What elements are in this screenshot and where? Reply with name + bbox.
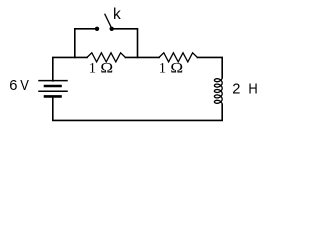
switch branch right leg wire <box>114 29 138 58</box>
svg-text:k: k <box>113 6 121 23</box>
resistor R1 (1 ohm) <box>87 53 125 62</box>
svg-text:1: 1 <box>89 61 96 77</box>
switch k right terminal dot <box>110 27 114 31</box>
battery V1 plate short thick <box>45 85 61 88</box>
resistor R2 (1 ohm) <box>159 53 197 62</box>
wire between resistors <box>125 56 159 58</box>
svg-text:6: 6 <box>9 78 17 94</box>
svg-text:Ω: Ω <box>170 61 183 76</box>
svg-text:1: 1 <box>159 61 166 77</box>
switch branch left leg wire <box>75 29 95 58</box>
battery V1 plate long lower <box>39 90 67 92</box>
inductor L1 (2 H) coil <box>214 78 222 105</box>
svg-text:Ω: Ω <box>100 61 113 76</box>
wire top-left segment <box>53 57 87 80</box>
svg-text:H: H <box>248 80 257 97</box>
switch k blade (open) <box>105 14 112 28</box>
svg-text:2: 2 <box>232 82 240 98</box>
battery V1 plate short thick bottom <box>45 95 61 98</box>
battery V1 plate long top <box>39 80 67 82</box>
wire top-right segment <box>197 57 222 77</box>
switch k left terminal dot <box>95 27 99 31</box>
svg-text:V: V <box>20 76 29 93</box>
wire right-bottom segment <box>53 97 222 120</box>
